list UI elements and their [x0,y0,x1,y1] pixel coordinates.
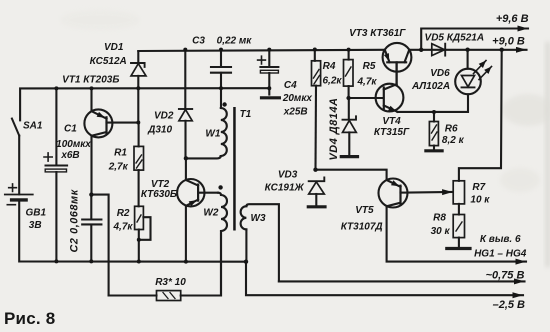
wire: +batt top rail y=88.5 from switch to C4 ground [20,88,269,120]
wire VT5 collector to R7 wiper arrow [408,191,453,194]
wire VD3 node to VT5 base [316,170,387,180]
VT3 emitter arrow (PNP) [384,53,389,61]
svg-text:С1: С1 [64,124,77,135]
transistor VT5 [379,179,408,208]
svg-text:КС512А: КС512А [90,56,127,67]
svg-text:W1: W1 [205,129,220,140]
node: R7 feed on +9V output rail [500,48,504,52]
node: C1 top on +batt rail [54,86,58,90]
C4 plus sign [258,56,266,64]
svg-text:R1: R1 [114,147,127,158]
winding W1 [220,88,222,108]
node: C4/ground on +batt rail [267,86,271,90]
scan artifact: right edge streak [546,42,550,267]
svg-text:20мкх: 20мкх [282,93,313,104]
transistor VT4 [376,84,404,112]
svg-text:Рис. 8: Рис. 8 [4,309,55,328]
zener VD3 [309,178,325,182]
node: C4 on +9V rail [267,48,271,52]
resistor R4 [314,50,316,61]
node: C2 bottom on minus rail [89,259,93,263]
capacitor C4 (electrolytic) [268,50,270,67]
svg-text:–2,5 В: –2,5 В [493,299,525,311]
wire +9V to R7 [459,50,502,181]
zener VD1 [137,51,139,63]
VT4 emitter arrow (NPN, away) [388,106,396,112]
ground (R8) [447,247,470,250]
svg-text:VT1 КТ203Б: VT1 КТ203Б [62,75,119,86]
node: VT2 emitter on minus rail [184,260,188,264]
svg-text:10 к: 10 к [470,195,490,206]
node: VT1 base / VD1-R1 junction [136,121,140,125]
svg-text:100мкх: 100мкх [56,139,91,150]
node: C1 bottom on minus rail [54,259,58,263]
VT1 emitter arrow (PNP, into base) [97,112,105,118]
svg-text:КТ315Г: КТ315Г [374,127,410,138]
svg-text:КТ630Б: КТ630Б [141,189,177,200]
svg-text:4,7к: 4,7к [357,76,378,87]
wire R5 to VT4 base [349,97,384,99]
svg-text:VD5 КД521А: VD5 КД521А [425,33,485,44]
svg-text:VD6: VD6 [430,68,450,79]
resistor R8 [453,215,464,238]
svg-text:0,22 мк: 0,22 мк [217,36,253,47]
resistor R5 [348,50,350,60]
svg-text:R3* 10: R3* 10 [155,277,186,288]
node: VT1 emitter on +batt rail [90,86,94,90]
svg-text:SA1: SA1 [23,121,43,132]
node: W3 bottom / -2.5V tap on minus rail [244,260,248,264]
svg-text:Т1: Т1 [240,109,252,120]
C1 plus sign [44,153,52,161]
W1 start dot [222,102,226,106]
transistor VT3 [383,43,412,72]
battery GB1 plates [5,194,33,196]
zener VD4 [348,98,350,120]
svg-text:30 к: 30 к [431,226,451,237]
ground (R6) [426,149,442,152]
svg-text:6,2к: 6,2к [323,76,343,87]
svg-text:R2: R2 [117,208,130,219]
svg-text:W3: W3 [251,213,266,224]
resistor R2 (with tap) [135,206,144,229]
svg-text:~0,75 В: ~0,75 В [486,270,525,282]
node: VD6 on +9V output rail [465,48,469,52]
svg-text:R4: R4 [323,61,336,72]
svg-text:3В: 3В [29,220,42,231]
resistor R1 [134,146,144,170]
svg-text:+9,0 В: +9,0 В [492,35,525,47]
transistor VT1 [84,109,112,137]
capacitor C2 [90,195,92,220]
diode VD5 [432,44,445,56]
svg-text:VT3 КТ361Г: VT3 КТ361Г [349,28,406,39]
potentiometer R7 [453,181,464,204]
svg-text:НG1 – НG4: НG1 – НG4 [474,248,527,259]
node: R2 bottom on minus rail [137,260,141,264]
svg-text:2,7к: 2,7к [108,161,129,172]
svg-text:VD3: VD3 [278,169,298,180]
winding W2 [218,193,221,195]
transistor VT2 [177,179,204,206]
node: R4 on +9V rail [313,48,317,52]
svg-text:АЛ102А: АЛ102А [411,81,450,92]
node: C3/W1 on +batt rail [219,86,223,90]
svg-text:К выв. 6: К выв. 6 [480,234,521,245]
capacitor C1 (electrolytic) [55,88,57,165]
svg-text:+9,6 В: +9,6 В [496,13,529,25]
-2.5V output line [246,262,523,296]
node: VD2 / W1 / VT2 collector junction [184,156,188,160]
svg-text:VD2: VD2 [154,111,174,122]
~0.75V output line [279,280,525,282]
node: VT1 collector / C2 / R3 junction [89,192,93,196]
scan artifact: faint ghost blobs [502,94,550,126]
svg-text:R5: R5 [363,61,376,72]
svg-text:КТ3107Д: КТ3107Д [341,221,383,232]
node: VD1/R1 on +batt rail [136,86,140,90]
svg-text:R7: R7 [472,182,485,193]
+9V rail right of VT3 with output arrow [409,49,526,51]
svg-text:х6В: х6В [60,150,79,161]
LED arrows [474,61,487,74]
svg-text:х25В: х25В [283,107,308,118]
svg-text:Д310: Д310 [147,124,172,135]
wire: left vertical battery branch and bottom rail [18,136,20,195]
resistor R6 [433,112,435,122]
svg-text:С3: С3 [192,36,205,47]
svg-text:GB1: GB1 [26,208,47,219]
+9V rail from VD1 to VT3 [138,50,383,51]
svg-text:КС191Ж: КС191Ж [265,183,305,194]
node: VD6 / R6 junction [432,110,436,114]
battery polarity signs [9,184,17,192]
svg-text:8,2 к: 8,2 к [442,135,465,146]
svg-text:VT5: VT5 [355,205,374,216]
svg-text:VD4 Д814А: VD4 Д814А [328,97,340,160]
node: R5 on +9V rail [347,48,351,52]
VT5 emitter arrow [391,180,399,186]
VT2 emitter arrow [189,200,197,206]
node: C3 on +9V rail [219,48,223,52]
svg-text:R6: R6 [445,123,458,134]
ground (C4) [262,96,280,99]
winding W3 [246,204,279,281]
resistor R3* [157,291,181,301]
wire: VT1 collector node to R3 [91,195,108,296]
capacitor C3 [220,50,222,67]
node: R2 wiper tie [137,238,141,242]
node: R4 / VD3 / VT5 base junction [313,168,317,172]
switch SA1 [12,119,19,136]
svg-text:R8: R8 [433,213,446,224]
node: R5 / VD4 / VT4 base junction [346,96,350,100]
ground (VD3) [308,205,325,208]
ground (VD4) [341,155,357,158]
svg-text:VT4: VT4 [382,116,401,127]
svg-text:VD1: VD1 [104,42,124,53]
LED VD6 [467,50,469,69]
svg-text:С2 0,068мк: С2 0,068мк [69,189,81,252]
transformer T1 core [233,107,236,231]
svg-text:С4: С4 [284,80,297,91]
svg-text:W2: W2 [203,208,218,219]
node: VD2 on +9V rail [183,48,187,52]
W2 start dot [218,185,222,189]
diode VD2 [184,50,186,109]
node: +9.6V branch junction [419,48,423,52]
svg-text:4,7к: 4,7к [113,222,134,233]
+9.6V branch [421,29,528,50]
